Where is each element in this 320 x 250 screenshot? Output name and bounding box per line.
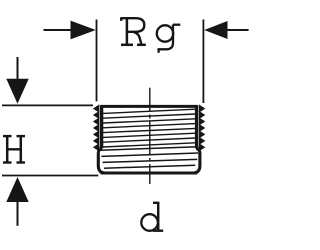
fitting body: right thread teeth bbox=[199, 105, 204, 150]
dimension H: top extension line bbox=[2, 104, 93, 106]
fitting body: collar line A bbox=[100, 147, 199, 150]
dimension Rg: left arrowhead bbox=[71, 21, 96, 40]
dimension Rg: left arrow stem bbox=[44, 29, 72, 31]
label d bbox=[141, 203, 163, 231]
dimension Rg: right extension line bbox=[202, 20, 204, 104]
fitting body: thread crest line 8 bbox=[103, 143, 196, 147]
fitting body: left thread teeth bbox=[94, 105, 99, 150]
fitting body: collar line C bbox=[103, 159, 198, 162]
fitting body: collar line B bbox=[101, 153, 198, 156]
fitting body: collar line D bbox=[104, 165, 195, 168]
fitting body: thread crest line 2 bbox=[103, 114, 196, 118]
fitting body: thread crest line 7 bbox=[103, 138, 196, 142]
label Rg: letter R bbox=[121, 17, 146, 44]
dimension H: down arrow stem bbox=[17, 57, 19, 79]
dimension H: up arrowhead bbox=[6, 177, 28, 202]
center line bbox=[149, 88, 151, 184]
label H bbox=[3, 136, 25, 164]
fitting body: right thread root edge bbox=[195, 105, 198, 148]
dimension H: up arrow stem bbox=[17, 202, 19, 226]
dimension Rg: left extension line bbox=[96, 20, 98, 102]
fitting body: thread crest line 3 bbox=[103, 119, 196, 123]
fitting body: thread crest line 5 bbox=[103, 128, 196, 132]
dimension H: down arrowhead bbox=[6, 79, 28, 104]
fitting body: right collar edge bbox=[195, 146, 200, 173]
fitting body: bottom edge bbox=[101, 172, 198, 175]
fitting body: left collar edge bbox=[98, 146, 103, 173]
dimension Rg: right arrowhead bbox=[204, 21, 227, 39]
fitting body: left thread root edge bbox=[100, 105, 103, 148]
fitting body: top edge bbox=[100, 105, 197, 108]
dimension Rg: right arrow stem bbox=[227, 29, 249, 31]
dimension H: bottom extension line bbox=[2, 175, 98, 177]
label Rg: letter g bbox=[157, 25, 181, 53]
fitting body: thread crest line 1 bbox=[103, 109, 196, 113]
fitting body: thread crest line 4 bbox=[103, 124, 196, 128]
fitting body: thread crest line 6 bbox=[103, 133, 196, 137]
